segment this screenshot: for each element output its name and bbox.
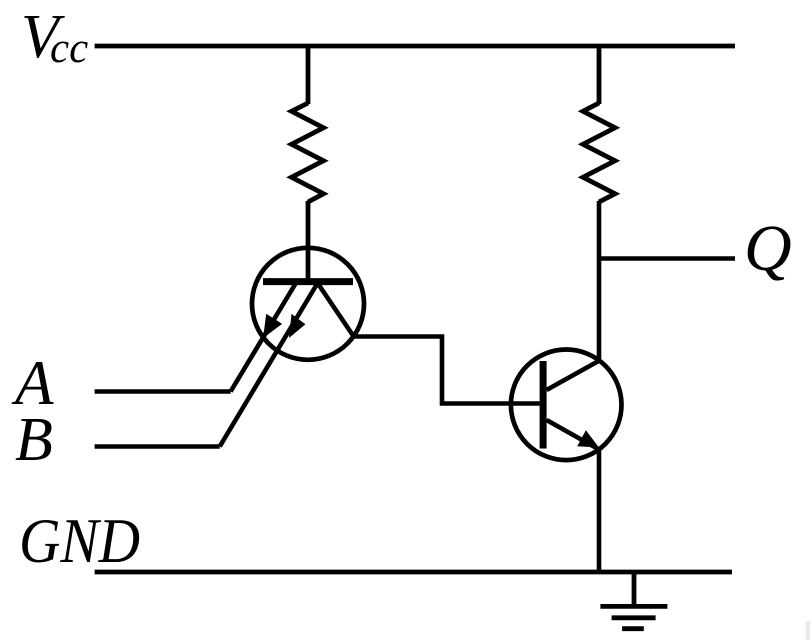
- transistor Q1 body (multi-emitter input transistor): [252, 248, 364, 360]
- wire Vcc rail: [95, 44, 735, 49]
- svg-text:cc: cc: [50, 25, 88, 72]
- wire output Q: [599, 256, 735, 261]
- wire R1 to Q1 base: [306, 201, 311, 281]
- Q1 emitter 1 line: [231, 284, 296, 392]
- wire input B: [95, 444, 220, 449]
- transistor Q2 body: [511, 350, 622, 461]
- Q2 collector line: [547, 361, 600, 391]
- Q2 base bar: [540, 361, 547, 449]
- svg-text:B: B: [15, 406, 53, 474]
- net label Vcc: [21, 3, 88, 72]
- wire Q1 collector to Q2 base: [354, 337, 540, 404]
- wire GND rail: [95, 570, 732, 575]
- Q1 base bar: [263, 278, 353, 285]
- Q1 collector line: [318, 284, 354, 337]
- Q1 emitter 1 arrowhead: [263, 314, 282, 338]
- Q1 emitter 2 arrowhead: [289, 314, 305, 338]
- wire R1 to Vcc rail: [306, 46, 311, 104]
- svg-text:GND: GND: [19, 505, 140, 576]
- wire R2 to Q2 collector: [597, 201, 602, 361]
- wire R2 to Vcc rail: [597, 46, 602, 104]
- resistor R1: [292, 103, 324, 202]
- svg-text:Q: Q: [744, 212, 792, 285]
- Q2 emitter line: [547, 420, 600, 450]
- resistor R2: [583, 103, 615, 202]
- ground symbol: [600, 572, 667, 629]
- scrollbar fragment (UI artifact, bottom-right): [806, 621, 810, 640]
- Q1 emitter 2 line: [220, 284, 317, 447]
- wire Q2 emitter to ground rail: [597, 449, 602, 572]
- wire input A: [95, 389, 231, 394]
- Q2 emitter arrowhead: [577, 430, 599, 447]
